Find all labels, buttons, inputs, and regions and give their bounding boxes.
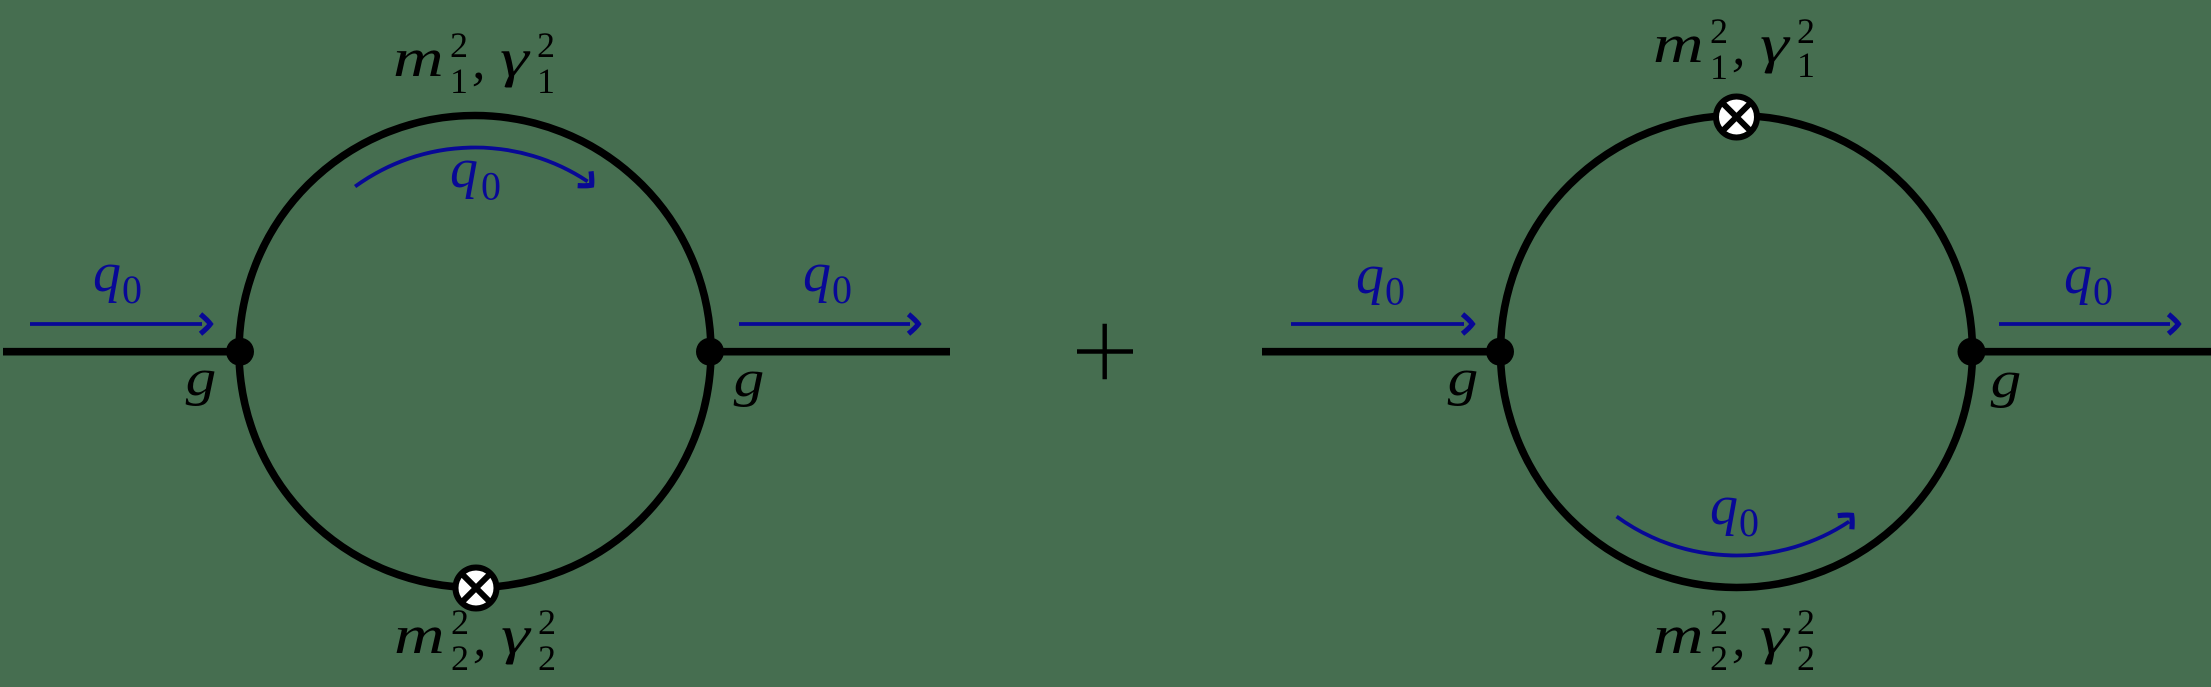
label q0 (outgoing, left diagram) xyxy=(803,242,852,312)
cross insertion symbol (bottom of loop) xyxy=(456,568,497,609)
svg-text:,: , xyxy=(1732,16,1746,76)
svg-text:g: g xyxy=(186,349,217,407)
svg-text:2: 2 xyxy=(1797,638,1815,678)
svg-text:m: m xyxy=(1653,14,1704,74)
svg-text:2: 2 xyxy=(451,638,469,678)
svg-text:2: 2 xyxy=(538,602,556,642)
svg-text:1: 1 xyxy=(537,61,555,101)
label m1^2, gamma1^2 (top) xyxy=(393,25,555,101)
svg-text:g: g xyxy=(1448,349,1479,407)
loop circle (propagators m1, m2) xyxy=(239,116,711,588)
svg-text:2: 2 xyxy=(450,25,468,65)
outgoing external propagator line (right) xyxy=(1972,348,2211,356)
label q0 (incoming, left diagram) xyxy=(93,242,142,312)
svg-text:q: q xyxy=(2064,244,2092,306)
svg-text:γ: γ xyxy=(500,28,531,88)
svg-text:1: 1 xyxy=(450,61,468,101)
incoming external propagator line (left) xyxy=(3,348,240,356)
svg-text:0: 0 xyxy=(1385,269,1405,314)
momentum arrow q0 over outgoing line xyxy=(739,314,918,334)
svg-text:0: 0 xyxy=(122,267,142,312)
svg-text:γ: γ xyxy=(1760,605,1791,665)
svg-text:q: q xyxy=(1356,244,1384,306)
vertex dot g (right) xyxy=(1958,338,1986,366)
incoming external propagator line (left) xyxy=(1262,348,1500,356)
svg-text:m: m xyxy=(394,605,445,665)
svg-text:,: , xyxy=(472,30,486,90)
vertex dot g (left) xyxy=(226,338,254,366)
svg-text:0: 0 xyxy=(832,267,852,312)
svg-text:2: 2 xyxy=(1710,602,1728,642)
label m2^2, gamma2^2 (bottom) xyxy=(394,602,556,678)
svg-text:,: , xyxy=(1732,607,1746,667)
outgoing external propagator line (right) xyxy=(710,348,950,356)
cross insertion symbol (top of loop) xyxy=(1716,97,1757,138)
vertex dot g (right) xyxy=(696,338,724,366)
svg-text:g: g xyxy=(734,350,765,408)
svg-text:γ: γ xyxy=(1760,14,1791,74)
label q0 (loop momentum, right diagram) xyxy=(1710,475,1759,545)
momentum arrow q0 over outgoing line xyxy=(1999,314,2178,334)
label m2^2, gamma2^2 (bottom) xyxy=(1653,602,1815,678)
svg-text:g: g xyxy=(1991,351,2022,409)
label q0 (incoming, right diagram) xyxy=(1356,244,1405,314)
svg-text:2: 2 xyxy=(1797,602,1815,642)
loop circle (propagators m1, m2) xyxy=(1501,116,1973,588)
svg-text:q: q xyxy=(803,242,831,304)
svg-text:0: 0 xyxy=(2093,269,2113,314)
svg-text:2: 2 xyxy=(451,602,469,642)
svg-text:2: 2 xyxy=(1710,11,1728,51)
svg-text:γ: γ xyxy=(501,605,532,665)
svg-text:q: q xyxy=(450,138,478,200)
svg-text:0: 0 xyxy=(481,164,501,209)
svg-text:q: q xyxy=(93,242,121,304)
momentum arrow q0 over incoming line xyxy=(30,314,210,334)
svg-text:,: , xyxy=(473,607,487,667)
svg-text:2: 2 xyxy=(538,638,556,678)
svg-text:m: m xyxy=(1653,605,1704,665)
label m1^2, gamma1^2 (top) xyxy=(1653,11,1815,87)
svg-text:1: 1 xyxy=(1797,45,1815,85)
momentum arrow q0 over incoming line xyxy=(1291,314,1472,334)
vertex dot g (left) xyxy=(1486,338,1514,366)
svg-text:0: 0 xyxy=(1739,500,1759,545)
svg-text:2: 2 xyxy=(537,25,555,65)
svg-text:2: 2 xyxy=(1710,638,1728,678)
curved loop-momentum arrow q0 (inside bottom of loop) xyxy=(1617,509,1859,556)
svg-text:m: m xyxy=(393,28,444,88)
svg-text:1: 1 xyxy=(1710,47,1728,87)
label q0 (outgoing, right diagram) xyxy=(2064,244,2113,314)
label q0 (loop momentum, left diagram) xyxy=(450,138,501,209)
svg-text:q: q xyxy=(1710,475,1738,537)
curved loop-momentum arrow q0 (inside top of loop) xyxy=(355,148,598,193)
